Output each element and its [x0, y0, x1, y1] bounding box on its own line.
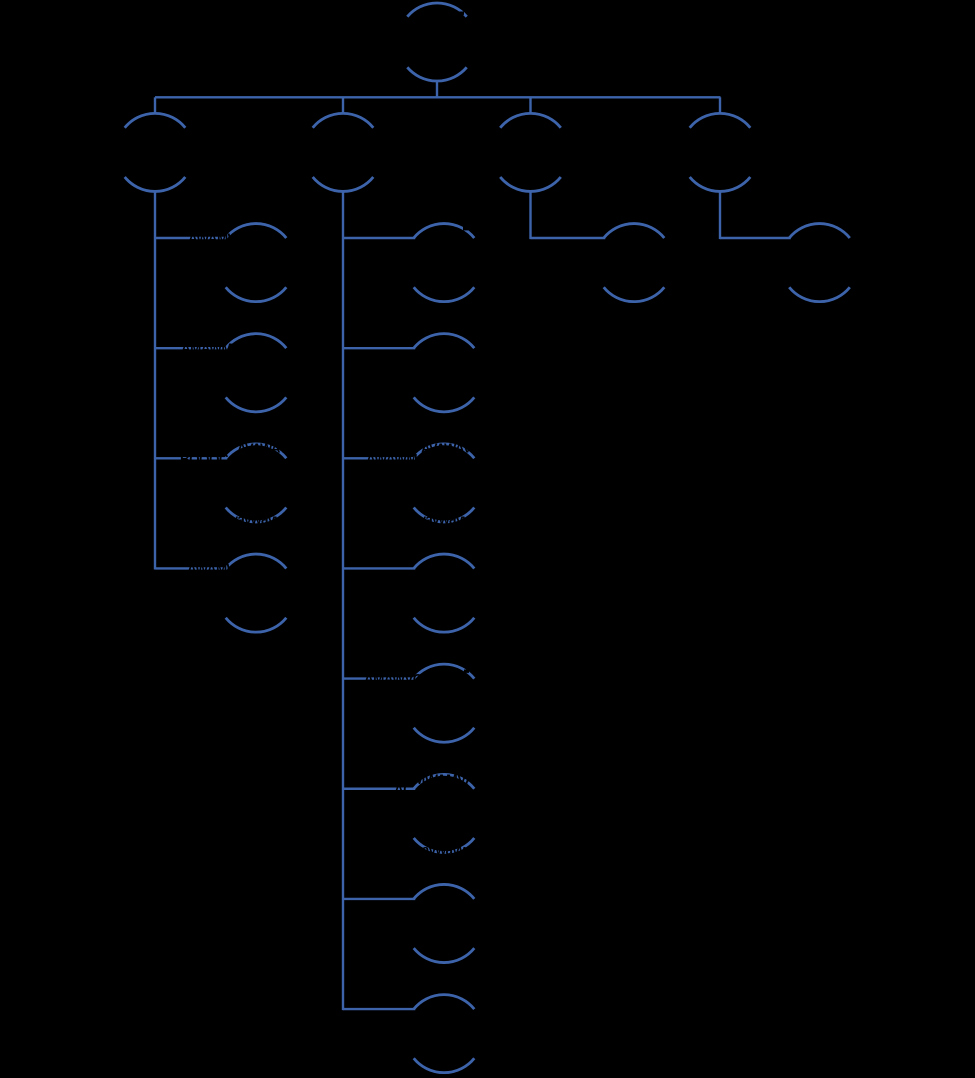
wire top bar	[155, 96, 721, 98]
node L1 bottom arc	[226, 287, 287, 301]
node c3 top arc	[500, 113, 561, 127]
node L2 top arc	[226, 334, 287, 348]
node M1 bottom arc	[414, 287, 475, 301]
wire c1 trunk	[154, 190, 156, 569]
node M6 top arc	[414, 774, 475, 788]
nibble M1 top arc right	[463, 227, 468, 230]
svg-text:BOOOC: BOOOC	[180, 451, 229, 466]
svg-text:AC: AC	[394, 782, 413, 797]
wire M5 branch	[343, 677, 415, 679]
node M7 top arc	[414, 884, 475, 898]
wire c3 trunk	[529, 190, 531, 239]
node R2 bottom arc	[789, 287, 850, 301]
node M3 bottom arc	[414, 508, 475, 522]
node R1 bottom arc	[604, 287, 665, 301]
svg-text:AVAWAV: AVAWAV	[237, 440, 288, 455]
node M5 bottom arc	[414, 728, 475, 742]
wire c2 trunk	[342, 190, 344, 1010]
node M8 bottom arc	[414, 1058, 475, 1072]
node c1 top arc	[125, 113, 186, 127]
wire root stub	[436, 81, 438, 97]
node root top arc	[407, 3, 466, 17]
node M6 bottom arc	[414, 838, 475, 852]
nibble root top arc right	[459, 12, 464, 15]
wire c1 stub	[154, 97, 156, 114]
svg-text:AMAWM.: AMAWM.	[181, 341, 235, 356]
svg-text:wavwavw: wavwavw	[226, 512, 285, 527]
node c1 bottom arc	[125, 177, 186, 191]
node M3 top arc	[414, 444, 475, 458]
svg-text:AMAWVO: AMAWVO	[364, 672, 423, 687]
wire L2 branch	[155, 347, 227, 349]
node R2 top arc	[789, 224, 850, 238]
wire M7 branch	[343, 898, 415, 900]
node M5 top arc	[414, 664, 475, 678]
wire c4 trunk	[719, 190, 721, 239]
node M4 bottom arc	[414, 618, 475, 632]
wire M1 branch	[343, 237, 415, 239]
svg-text:AWAWMO: AWAWMO	[366, 451, 427, 466]
wire c4 stub	[719, 97, 721, 114]
node M2 top arc	[414, 334, 475, 348]
node c2 bottom arc	[313, 177, 374, 191]
nibble M5 top arc right	[464, 670, 469, 673]
wire L3 branch	[155, 457, 227, 459]
node c4 top arc	[690, 113, 751, 127]
node M7 bottom arc	[414, 948, 475, 962]
svg-text:MWAMVA: MWAMVA	[414, 771, 475, 787]
wire M2 branch	[343, 347, 415, 349]
wire c3 branch	[531, 237, 606, 239]
svg-text:AWAMW: AWAMW	[188, 231, 241, 246]
node R1 top arc	[604, 224, 665, 238]
svg-text:wavwavw: wavwavw	[414, 512, 473, 527]
node c3 bottom arc	[500, 177, 561, 191]
wire c2 stub	[342, 97, 344, 114]
wire M6 branch	[343, 788, 415, 790]
node M1 top arc	[414, 224, 475, 238]
wire L4 branch	[155, 567, 227, 569]
node L3 bottom arc	[226, 508, 287, 522]
wire M8 branch	[343, 1008, 415, 1010]
node L4 bottom arc	[226, 618, 287, 632]
node c4 bottom arc	[690, 177, 751, 191]
node M8 top arc	[414, 995, 475, 1009]
svg-text:AVAWAV: AVAWAV	[421, 440, 472, 455]
node L2 bottom arc	[226, 397, 287, 411]
wire M3 branch	[343, 457, 415, 459]
wire M4 branch	[343, 567, 415, 569]
node L1 top arc	[226, 224, 287, 238]
node L3 top arc	[226, 444, 287, 458]
svg-text:wavwavwa: wavwavwa	[411, 842, 477, 857]
node L4 top arc	[226, 554, 287, 568]
node root bottom arc	[407, 67, 466, 81]
wire c3 stub	[529, 97, 531, 114]
wire c4 branch	[720, 237, 791, 239]
svg-text:AWAMW: AWAMW	[187, 561, 240, 576]
node M4 top arc	[414, 554, 475, 568]
node c2 top arc	[313, 113, 374, 127]
wire L1 branch	[155, 237, 227, 239]
node M2 bottom arc	[414, 397, 475, 411]
